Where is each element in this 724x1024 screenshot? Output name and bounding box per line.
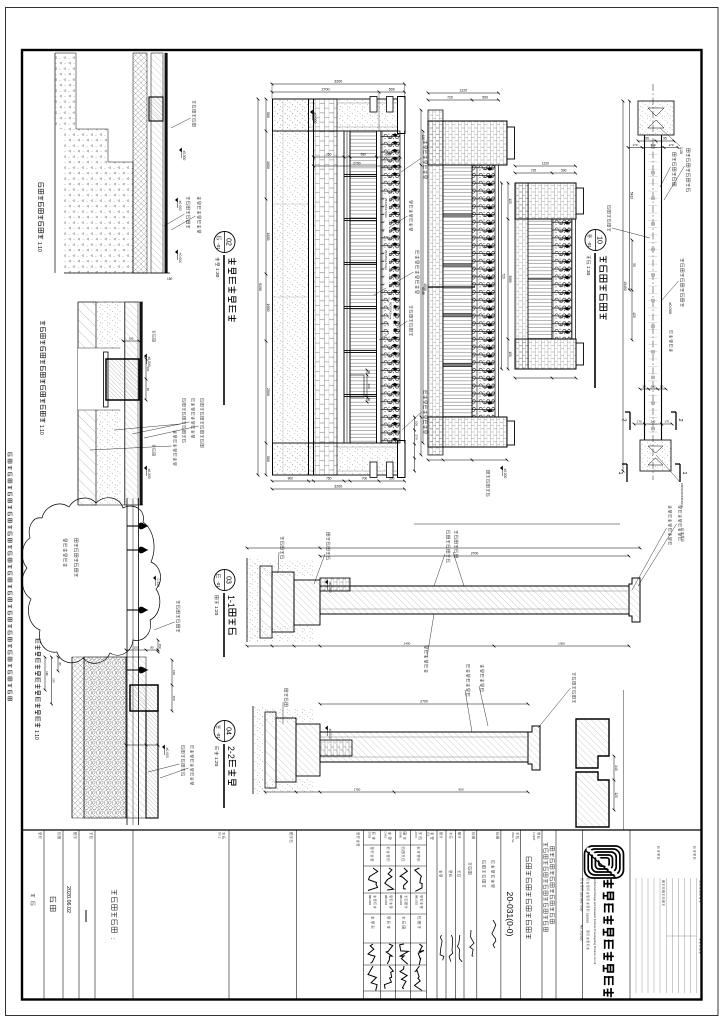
svg-text:1: 1 <box>681 471 687 474</box>
elev3 left brick pier <box>515 183 576 219</box>
elev2 spear tips row <box>487 167 493 170</box>
svg-text:2700: 2700 <box>322 88 330 92</box>
svg-text:1650: 1650 <box>266 304 270 312</box>
D7 cobble band <box>84 657 126 818</box>
misc cell <box>496 833 499 836</box>
svg-text:190: 190 <box>45 671 49 676</box>
svg-text:3080: 3080 <box>508 275 512 282</box>
svg-text:±0.000: ±0.000 <box>165 748 169 758</box>
elev2 baluster zone <box>443 165 472 417</box>
section 2-2 soil sides <box>259 708 314 722</box>
institute logo <box>585 846 624 878</box>
plan centerline label <box>607 206 610 209</box>
plan sub-dim near pier A <box>638 140 674 142</box>
svg-text:No. S1201C: No. S1201C <box>580 925 584 942</box>
elev3 right brick pier <box>515 339 576 369</box>
svg-text:±0.000: ±0.000 <box>668 302 673 315</box>
svg-text:80: 80 <box>150 646 154 650</box>
svg-text:1750: 1750 <box>354 788 361 792</box>
svg-text:1:20: 1:20 <box>213 606 219 616</box>
section 1-1 left dim <box>320 555 629 557</box>
svg-text:981.002: 981.002 <box>384 895 388 906</box>
svg-text:60: 60 <box>367 371 371 375</box>
client cell <box>537 833 540 835</box>
elev3 baluster zone <box>528 219 552 339</box>
svg-text:6045: 6045 <box>421 287 425 295</box>
svg-text:1:20: 1:20 <box>213 757 219 767</box>
tall empty cells labels <box>357 833 360 835</box>
section 1-1 coping leaders <box>678 506 682 509</box>
sheet title cell <box>112 890 117 895</box>
svg-text:95: 95 <box>645 137 649 141</box>
section 2-2 footing brick stack <box>320 740 352 756</box>
svg-text:240: 240 <box>651 385 656 389</box>
svg-text:120: 120 <box>421 135 425 141</box>
svg-text:020-86677000: 020-86677000 <box>580 892 584 912</box>
svg-text:100: 100 <box>146 367 150 372</box>
svg-text:1:30: 1:30 <box>585 266 591 276</box>
D6 title <box>41 321 45 326</box>
elev2 right brick pier <box>428 417 507 447</box>
svg-text:360: 360 <box>650 143 655 147</box>
section 1-1 footing <box>320 578 350 591</box>
svg-text:03: 03 <box>225 576 232 584</box>
svg-text:750: 750 <box>326 477 332 481</box>
D5 soil block (triangles) <box>55 53 76 129</box>
svg-text:420: 420 <box>632 312 636 318</box>
D5 edges <box>64 272 170 274</box>
section 2-2 leaders <box>480 664 484 668</box>
svg-text:04: 04 <box>225 727 232 735</box>
D7 level flag <box>162 745 165 749</box>
section flag 1 (plan) <box>679 464 681 482</box>
svg-text:15450: 15450 <box>623 281 627 290</box>
svg-text:500: 500 <box>561 169 567 173</box>
svg-text:3200: 3200 <box>334 80 342 84</box>
D6 curb block <box>104 352 109 407</box>
svg-text:2700: 2700 <box>353 162 361 166</box>
coping plan detail block B <box>576 772 609 827</box>
svg-text:720: 720 <box>447 96 453 100</box>
svg-text:150: 150 <box>172 695 176 700</box>
D5 crosshatch band <box>133 53 147 273</box>
svg-text:25X25X2.5mm: 25X25X2.5mm <box>384 250 388 270</box>
elev1 band labels <box>384 196 389 236</box>
section 1-1 title <box>214 570 235 591</box>
svg-text:±0.000: ±0.000 <box>503 469 507 479</box>
pier A (plan square with braces) <box>638 101 674 135</box>
D6 leaders <box>200 399 203 402</box>
hui-qian label row <box>431 832 434 835</box>
svg-text:510010: 510010 <box>586 913 590 923</box>
pier B (plan square with braces) <box>640 440 671 471</box>
elev1 top leader labels <box>423 140 427 144</box>
plan mid dim <box>631 240 633 340</box>
section 2-2 coping <box>528 726 540 770</box>
project name lines <box>550 847 554 851</box>
svg-text:±0.000: ±0.000 <box>313 113 317 124</box>
svg-text:DSGN: DSGN <box>368 832 370 839</box>
section 1-1 soil stipple sides <box>254 560 314 576</box>
svg-text:±0.000: ±0.000 <box>178 201 182 211</box>
svg-text:900: 900 <box>288 477 294 481</box>
svg-text:120: 120 <box>614 792 618 798</box>
plan title <box>585 230 606 251</box>
svg-text:270: 270 <box>52 678 56 683</box>
svg-text:650: 650 <box>361 153 367 157</box>
reference line <box>414 523 620 525</box>
elev2 bottom dim <box>420 110 422 455</box>
svg-text:20-031(0-0): 20-031(0-0) <box>505 892 515 937</box>
D7 left tier dims <box>57 657 59 671</box>
svg-text:02: 02 <box>225 238 232 246</box>
svg-text:1: 1 <box>617 471 623 474</box>
elev1 inner height dims <box>314 156 401 158</box>
svg-text:240: 240 <box>651 420 656 424</box>
D5 upper labels <box>193 100 196 103</box>
spear finials <box>139 523 149 530</box>
svg-text:1400: 1400 <box>404 642 411 646</box>
svg-text:2500: 2500 <box>266 388 270 396</box>
svg-text:1835: 1835 <box>266 233 270 241</box>
svg-text:50X50X2mm: 50X50X2mm <box>389 302 393 320</box>
elev1 spear tips row <box>392 133 398 136</box>
row 247-260 <box>472 833 475 836</box>
svg-text:5420: 5420 <box>630 192 634 200</box>
D6 bands <box>140 302 143 505</box>
svg-text:50: 50 <box>660 385 664 389</box>
svg-text:G.S.: G.S. <box>427 832 430 837</box>
svg-text:1:30: 1:30 <box>214 268 220 278</box>
elev1 footing stipple band <box>273 99 309 475</box>
hui-qian small rows <box>458 832 461 835</box>
elev1 right pier <box>273 443 406 475</box>
svg-text:950: 950 <box>458 788 463 792</box>
svg-text:170: 170 <box>664 420 669 424</box>
elev3 spear tips row <box>564 221 570 224</box>
svg-text:2: 2 <box>677 418 683 421</box>
svg-text:500: 500 <box>389 477 395 481</box>
svg-text:-01: -01 <box>216 732 221 739</box>
svg-text:100: 100 <box>415 421 419 426</box>
elev3 ornamental band <box>575 219 577 339</box>
section 2-2 title <box>214 721 235 742</box>
elev3 low band <box>515 183 528 369</box>
svg-text:+0.000: +0.000 <box>178 253 182 264</box>
svg-text:50: 50 <box>632 263 636 267</box>
coping plan detail block A <box>576 719 609 768</box>
svg-text:±0.000: ±0.000 <box>147 469 151 479</box>
svg-text:500: 500 <box>266 456 270 462</box>
elev1 bottom dims <box>265 99 267 475</box>
elev1 title <box>214 232 235 253</box>
D7 lower band <box>72 657 84 818</box>
svg-text:CLIENT: CLIENT <box>532 832 535 841</box>
date cell <box>74 832 77 835</box>
svg-text:±0.000: ±0.000 <box>147 357 151 367</box>
D5 leaders <box>197 196 201 200</box>
coping plan dims <box>613 756 615 810</box>
elev1 baluster zone <box>350 131 377 443</box>
svg-text:120: 120 <box>508 198 512 204</box>
svg-text:1-1: 1-1 <box>226 595 236 608</box>
svg-text:981.002: 981.002 <box>414 895 418 906</box>
svg-text:170: 170 <box>668 143 673 147</box>
elev1 panel posts <box>344 173 377 175</box>
svg-text:TITLE: TITLE <box>218 832 221 839</box>
elev2 left brick pier <box>428 121 507 165</box>
svg-text:2: 2 <box>621 418 627 421</box>
svg-text:150: 150 <box>129 337 134 341</box>
elev2 left dims <box>428 99 499 101</box>
svg-text:2700: 2700 <box>420 700 428 704</box>
bottom margin copyright note <box>8 453 12 457</box>
svg-text:2700: 2700 <box>471 552 479 556</box>
leader labels above plan <box>686 148 690 152</box>
title block fine grid (certificates) <box>696 878 698 993</box>
elev1 bottom rails <box>349 131 351 443</box>
svg-text:25X25X2.5mm: 25X25X2.5mm <box>384 198 388 218</box>
section 1-1 wall hatched <box>320 586 629 614</box>
svg-text:500: 500 <box>266 112 270 118</box>
svg-text:720: 720 <box>531 169 537 173</box>
D7 leaders <box>191 745 194 748</box>
svg-text:270: 270 <box>415 434 419 439</box>
elev1 mini dim 60-360-60 <box>366 370 368 402</box>
centerline <box>652 84 654 480</box>
svg-text:2-2: 2-2 <box>226 746 236 759</box>
note cell <box>39 833 42 835</box>
svg-text:10: 10 <box>596 236 603 244</box>
cloud inner labels <box>74 538 78 542</box>
D7 hatch band <box>126 657 146 818</box>
svg-text:750: 750 <box>326 153 332 157</box>
svg-text:2020.06.02: 2020.06.02 <box>65 886 71 913</box>
signature grid <box>364 844 427 846</box>
institute name (pseudo CJK bold) <box>604 879 614 888</box>
elev2 ornamental band <box>498 165 500 417</box>
wall double line (plan) <box>661 135 663 440</box>
svg-text:APPD: APPD <box>414 832 417 839</box>
D6 level flags <box>152 330 155 333</box>
svg-text:1220: 1220 <box>542 162 549 166</box>
svg-text:0.150: 0.150 <box>156 579 160 588</box>
section 1-1 coping <box>629 578 640 622</box>
detail cloud boundary <box>22 498 160 664</box>
elev1 level flag <box>310 110 313 114</box>
svg-text::: : <box>109 938 115 940</box>
section 1-1 right dims <box>247 645 629 647</box>
svg-text:500: 500 <box>386 153 392 157</box>
category cell : jian-shi <box>58 833 61 836</box>
elev1 ornamental top band <box>404 131 406 443</box>
svg-text:80: 80 <box>58 662 62 666</box>
svg-text:500: 500 <box>482 96 488 100</box>
D6 white pocket below curb <box>78 348 120 410</box>
svg-text:1650: 1650 <box>266 161 270 169</box>
D7 dims <box>126 649 158 651</box>
svg-text:1:10: 1:10 <box>33 730 39 740</box>
svg-text:DWG. No.: DWG. No. <box>511 832 514 843</box>
svg-text:1300: 1300 <box>558 642 565 646</box>
pier detail scale label <box>660 128 680 146</box>
edition cell <box>90 832 92 835</box>
svg-text:3200: 3200 <box>334 485 342 489</box>
svg-text:60: 60 <box>367 398 371 402</box>
D5 step curb <box>149 97 163 121</box>
section 2-2 wall <box>320 732 528 762</box>
svg-text:700: 700 <box>362 477 368 481</box>
D7 title <box>36 639 40 644</box>
elev1 right dims <box>272 480 405 482</box>
elev1 mid rail <box>380 131 382 443</box>
institute address lines <box>587 878 589 880</box>
plan long dims <box>629 101 631 290</box>
svg-text:1220: 1220 <box>459 89 467 93</box>
D5 dark surface band <box>165 53 168 273</box>
plan sub-dim near pier B <box>640 388 666 390</box>
svg-text:-01: -01 <box>216 243 221 250</box>
spear detail leaders <box>177 600 180 604</box>
svg-text:150: 150 <box>167 277 173 281</box>
elev1 ground beam <box>313 99 315 475</box>
svg-text:170: 170 <box>632 143 637 147</box>
svg-text:981.002: 981.002 <box>368 895 372 906</box>
D5 title <box>39 183 44 188</box>
title block column <box>22 829 702 831</box>
D5 level flags <box>175 198 178 202</box>
svg-text:EXMD: EXMD <box>399 832 401 839</box>
svg-text:82: 82 <box>146 388 150 391</box>
svg-text:±0.000: ±0.000 <box>328 583 332 593</box>
svg-text:240: 240 <box>614 765 618 771</box>
elev1 brick band <box>314 99 338 475</box>
D5 hatch band <box>151 53 163 273</box>
spear rail detail lines <box>138 498 140 825</box>
svg-text:100: 100 <box>172 670 176 675</box>
svg-text:-01: -01 <box>216 581 221 588</box>
svg-text:CHKD: CHKD <box>384 832 386 839</box>
elev2 right dims <box>428 459 507 461</box>
picket ticks + posts in plan <box>649 139 658 141</box>
drawing number cell <box>516 832 518 835</box>
elev1 left dims <box>272 91 405 93</box>
svg-text:150: 150 <box>133 646 138 650</box>
D6 curb dims <box>123 340 139 342</box>
svg-text:1:20: 1:20 <box>679 147 683 154</box>
svg-text:-01: -01 <box>587 241 592 248</box>
section 2-2 coping leaders <box>573 672 576 675</box>
svg-text:1:10: 1:10 <box>36 242 42 252</box>
svg-text:±0.000: ±0.000 <box>328 729 332 739</box>
D7 wall strip <box>146 711 158 818</box>
elev2 low brick band <box>428 110 443 455</box>
section flag 2 (plan) <box>675 412 677 430</box>
svg-text:100: 100 <box>508 351 512 357</box>
elev2 right leaders <box>500 466 503 470</box>
svg-text:981.002: 981.002 <box>399 895 403 906</box>
svg-text:200X200X300mm: 200X200X300mm <box>680 483 684 508</box>
svg-text:500: 500 <box>389 88 395 92</box>
elev3 dims <box>515 172 576 174</box>
svg-text:95: 95 <box>663 137 667 141</box>
svg-text:360: 360 <box>367 383 371 388</box>
svg-text:170: 170 <box>637 420 642 424</box>
svg-text:Architectural Design and Resea: Architectural Design and Research Instit… <box>593 878 597 965</box>
section 1-1 leaders <box>455 530 458 534</box>
svg-text:±0.000: ±0.000 <box>182 151 186 161</box>
D7 curb <box>130 685 158 711</box>
elev1 left pier <box>273 99 406 131</box>
svg-text:9190: 9190 <box>258 283 262 291</box>
svg-text:50: 50 <box>643 385 647 389</box>
section 2-2 dims <box>320 703 528 705</box>
svg-text:150: 150 <box>158 643 162 648</box>
svg-text:720: 720 <box>502 273 506 279</box>
elev1 top long dim <box>422 131 424 443</box>
svg-text:1:10: 1:10 <box>38 425 44 435</box>
